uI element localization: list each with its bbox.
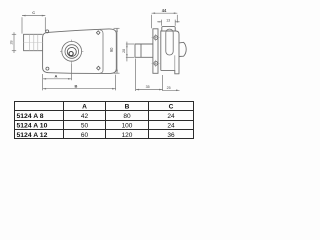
- front view: screw hole bottom-left: [46, 67, 49, 70]
- side view: top tab: [162, 27, 175, 31]
- svg-text:13: 13: [166, 19, 170, 23]
- svg-text:28: 28: [10, 41, 14, 45]
- table header row: [82, 104, 174, 111]
- table values row 1: [81, 113, 175, 120]
- side view: bolt bump: [179, 42, 186, 56]
- front view: cylinder centerline ticks: [60, 40, 83, 63]
- dimension 25 (below side view: case depth): [163, 75, 180, 91]
- table values row 2: [81, 123, 175, 130]
- svg-text:28: 28: [122, 49, 126, 53]
- svg-text:42: 42: [81, 113, 89, 120]
- dimension 35 (below side view: barrel to faceplate): [136, 59, 163, 92]
- dimension 28 (side cylinder diameter): [126, 42, 134, 62]
- svg-text:A: A: [55, 74, 58, 79]
- front view: faceplate fold line: [100, 30, 103, 73]
- front view: screw hole top-left: [46, 30, 49, 33]
- svg-text:5124 A 12: 5124 A 12: [17, 132, 48, 139]
- svg-text:80: 80: [123, 113, 131, 120]
- svg-text:35: 35: [146, 85, 150, 89]
- side view: faceplate screw hole bottom: [154, 62, 158, 66]
- dimension 28 (housing height, left): [13, 32, 15, 53]
- svg-text:24: 24: [167, 123, 175, 130]
- cylinder housing knurl lines: [24, 34, 43, 50]
- front view: lock case outline: [43, 29, 117, 74]
- table grid: [14, 101, 194, 139]
- svg-text:44: 44: [162, 8, 167, 13]
- front view: screw hole top-right (diamond): [96, 31, 100, 35]
- svg-text:C: C: [32, 10, 35, 15]
- svg-text:B: B: [125, 104, 130, 111]
- side view: bolt inner line: [174, 55, 176, 70]
- side view: faceplate: [153, 29, 158, 74]
- svg-text:5124 A 10: 5124 A 10: [17, 123, 48, 130]
- svg-text:5124 A 8: 5124 A 8: [17, 113, 44, 120]
- side view: case outline: [161, 31, 180, 74]
- side view: slot: [166, 29, 173, 55]
- dimension 13 (tab width): [157, 20, 179, 26]
- front view: cylinder outer circle: [62, 41, 82, 61]
- side view: cylinder barrel: [135, 44, 153, 57]
- svg-text:60: 60: [81, 132, 89, 139]
- svg-text:A: A: [82, 104, 87, 111]
- svg-text:B: B: [75, 83, 78, 88]
- front view: cylinder ring: [65, 45, 79, 59]
- dimension C (top): [22, 16, 45, 34]
- dimension 44 (side view width, top): [152, 13, 178, 28]
- svg-text:90: 90: [109, 47, 114, 52]
- front view: keyway: [69, 52, 73, 56]
- front view: screw hole bottom-right (diamond): [97, 66, 101, 70]
- cylinder housing (left protrusion): [24, 34, 43, 50]
- svg-text:24: 24: [167, 113, 175, 120]
- svg-text:100: 100: [122, 123, 133, 130]
- table values row 3: [81, 132, 175, 139]
- svg-text:50: 50: [81, 123, 89, 130]
- side view: faceplate screw hole top: [154, 36, 158, 40]
- table model labels: [17, 113, 48, 139]
- dimension A (bottom, to cylinder centre): [71, 63, 73, 80]
- svg-text:36: 36: [167, 132, 175, 139]
- front view: cylinder core: [67, 47, 76, 56]
- svg-text:C: C: [169, 104, 174, 111]
- svg-text:120: 120: [122, 132, 133, 139]
- svg-text:25: 25: [167, 86, 171, 90]
- dimension B (bottom, full width): [42, 74, 44, 90]
- dimension 90 (body height, right): [114, 28, 120, 73]
